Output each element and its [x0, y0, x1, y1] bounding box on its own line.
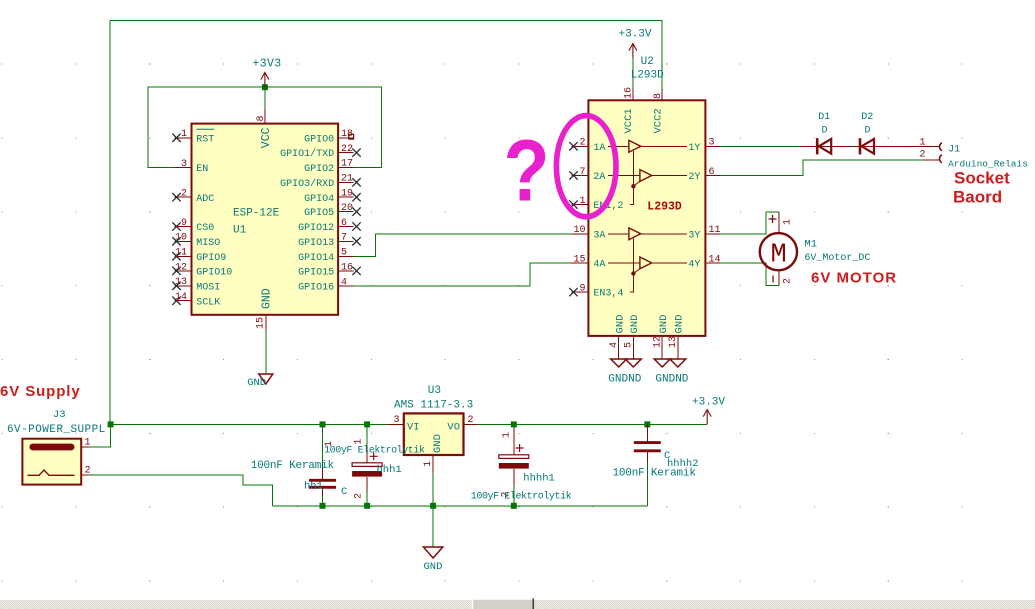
svg-text:2: 2 [579, 138, 585, 149]
svg-text:VCC: VCC [260, 127, 273, 148]
svg-text:1: 1 [783, 219, 794, 225]
svg-text:M1: M1 [804, 238, 817, 250]
svg-text:6: 6 [709, 167, 715, 178]
svg-text:GPIO14: GPIO14 [298, 253, 334, 264]
svg-text:1: 1 [181, 129, 187, 140]
svg-text:GPIO0: GPIO0 [304, 134, 334, 145]
svg-text:7: 7 [579, 167, 585, 178]
svg-text:4Y: 4Y [688, 260, 700, 271]
svg-text:10: 10 [573, 225, 585, 236]
svg-text:GND: GND [615, 315, 627, 334]
svg-text:7: 7 [341, 233, 347, 244]
svg-text:VO: VO [447, 421, 460, 433]
svg-text:M: M [771, 241, 787, 271]
svg-text:22: 22 [341, 144, 353, 155]
svg-text:2: 2 [84, 466, 90, 477]
svg-text:2: 2 [181, 189, 187, 200]
svg-text:D1: D1 [818, 112, 830, 123]
svg-text:GPIO3/RXD: GPIO3/RXD [280, 178, 334, 190]
svg-text:GNDND: GNDND [608, 374, 641, 386]
svg-text:GND: GND [424, 561, 443, 573]
svg-text:6V-POWER_SUPPL: 6V-POWER_SUPPL [7, 424, 106, 436]
svg-text:J3: J3 [53, 409, 66, 421]
svg-text:VCC1: VCC1 [623, 108, 635, 133]
svg-text:2: 2 [354, 493, 365, 499]
svg-text:2Y: 2Y [688, 172, 700, 183]
svg-text:3Y: 3Y [688, 230, 700, 241]
svg-text:MOSI: MOSI [196, 282, 220, 293]
svg-text:16: 16 [341, 262, 353, 273]
svg-text:6: 6 [341, 218, 347, 229]
svg-text:5: 5 [624, 342, 635, 348]
svg-text:GPIO16: GPIO16 [298, 283, 334, 294]
svg-text:6V Supply: 6V Supply [0, 383, 81, 400]
svg-text:3A: 3A [593, 230, 605, 241]
svg-text:1A: 1A [593, 143, 605, 154]
svg-text:20: 20 [341, 203, 353, 214]
svg-text:19: 19 [341, 189, 353, 200]
svg-text:1: 1 [502, 432, 513, 438]
svg-text:100yF Elektrolytik: 100yF Elektrolytik [324, 444, 425, 456]
svg-text:?: ? [504, 122, 550, 219]
svg-text:hhh1: hhh1 [377, 464, 402, 476]
svg-text:hhhh1: hhhh1 [523, 473, 555, 485]
svg-text:2A: 2A [593, 172, 605, 183]
svg-text:4: 4 [341, 277, 347, 288]
svg-text:U3: U3 [428, 385, 441, 397]
svg-text:GND: GND [261, 288, 274, 309]
svg-text:+3.3V: +3.3V [692, 397, 725, 409]
svg-text:J1: J1 [948, 144, 960, 155]
svg-text:GPIO1/TXD: GPIO1/TXD [280, 148, 334, 160]
svg-text:CS0: CS0 [196, 223, 214, 234]
svg-text:GND: GND [247, 377, 266, 389]
svg-text:100yF Elektrolytik: 100yF Elektrolytik [471, 490, 572, 502]
svg-text:6V_Motor_DC: 6V_Motor_DC [804, 253, 870, 264]
svg-text:15: 15 [256, 317, 267, 329]
svg-text:D2: D2 [861, 112, 873, 123]
svg-text:GND: GND [674, 315, 686, 334]
svg-text:2: 2 [468, 415, 474, 426]
svg-text:3: 3 [181, 159, 187, 170]
svg-text:2: 2 [919, 149, 925, 160]
svg-text:+3V3: +3V3 [253, 58, 282, 71]
svg-text:RST: RST [196, 134, 214, 145]
svg-text:D: D [822, 125, 828, 136]
svg-text:D: D [865, 125, 871, 136]
svg-text:11: 11 [709, 225, 721, 236]
svg-text:4: 4 [609, 342, 620, 348]
svg-text:Baord: Baord [953, 187, 1002, 206]
svg-text:5: 5 [341, 248, 347, 259]
svg-text:GPIO2: GPIO2 [304, 164, 334, 175]
svg-text:VCC2: VCC2 [652, 108, 664, 133]
svg-text:GPIO9: GPIO9 [196, 253, 226, 264]
svg-text:GPIO5: GPIO5 [304, 208, 334, 219]
svg-text:AMS 1117-3.3: AMS 1117-3.3 [394, 400, 473, 412]
svg-text:2: 2 [783, 278, 794, 284]
svg-text:GPIO10: GPIO10 [196, 268, 232, 279]
svg-text:1: 1 [919, 137, 925, 148]
svg-text:GND: GND [658, 315, 670, 334]
svg-text:3: 3 [709, 138, 715, 149]
svg-text:MISO: MISO [196, 238, 220, 249]
svg-text:17: 17 [341, 159, 353, 170]
svg-text:GPIO12: GPIO12 [298, 223, 334, 234]
svg-text:ESP-12E: ESP-12E [233, 208, 280, 220]
svg-text:16: 16 [624, 87, 635, 99]
svg-text:13: 13 [668, 336, 679, 348]
svg-text:9: 9 [181, 218, 187, 229]
svg-text:ADC: ADC [196, 194, 214, 205]
svg-text:C: C [341, 486, 347, 498]
svg-text:SCLK: SCLK [196, 297, 220, 308]
svg-text:8: 8 [653, 93, 664, 99]
svg-text:8: 8 [256, 115, 267, 121]
svg-text:GND: GND [432, 434, 444, 453]
svg-text:6V MOTOR: 6V MOTOR [811, 269, 897, 286]
svg-text:1Y: 1Y [688, 143, 700, 154]
svg-text:GNDND: GNDND [655, 374, 688, 386]
svg-text:4A: 4A [593, 260, 605, 271]
svg-text:GPIO13: GPIO13 [298, 238, 334, 249]
svg-text:3: 3 [393, 415, 399, 426]
svg-text:L293D: L293D [647, 200, 682, 213]
svg-text:L293D: L293D [631, 69, 664, 81]
svg-text:EN3,4: EN3,4 [593, 289, 623, 300]
svg-text:EN: EN [196, 164, 208, 175]
svg-text:GPIO4: GPIO4 [304, 194, 334, 205]
svg-text:U1: U1 [233, 225, 247, 237]
svg-text:14: 14 [709, 254, 721, 265]
svg-text:VI: VI [407, 421, 420, 433]
svg-text:1: 1 [579, 196, 585, 207]
svg-text:Socket: Socket [954, 169, 1010, 188]
svg-text:100nF Keramik: 100nF Keramik [251, 460, 335, 472]
svg-text:21: 21 [341, 174, 353, 185]
svg-text:GPIO15: GPIO15 [298, 268, 334, 279]
svg-text:U2: U2 [641, 56, 654, 68]
svg-text:1: 1 [423, 461, 434, 467]
svg-text:1: 1 [354, 439, 365, 445]
svg-text:15: 15 [573, 254, 585, 265]
svg-text:1: 1 [84, 438, 90, 449]
svg-text:9: 9 [579, 284, 585, 295]
svg-text:+3.3V: +3.3V [619, 29, 652, 41]
svg-text:12: 12 [652, 336, 663, 348]
svg-text:GND: GND [629, 315, 641, 334]
svg-text:100nF Keramik: 100nF Keramik [613, 468, 697, 480]
svg-text:hh1: hh1 [304, 481, 323, 493]
